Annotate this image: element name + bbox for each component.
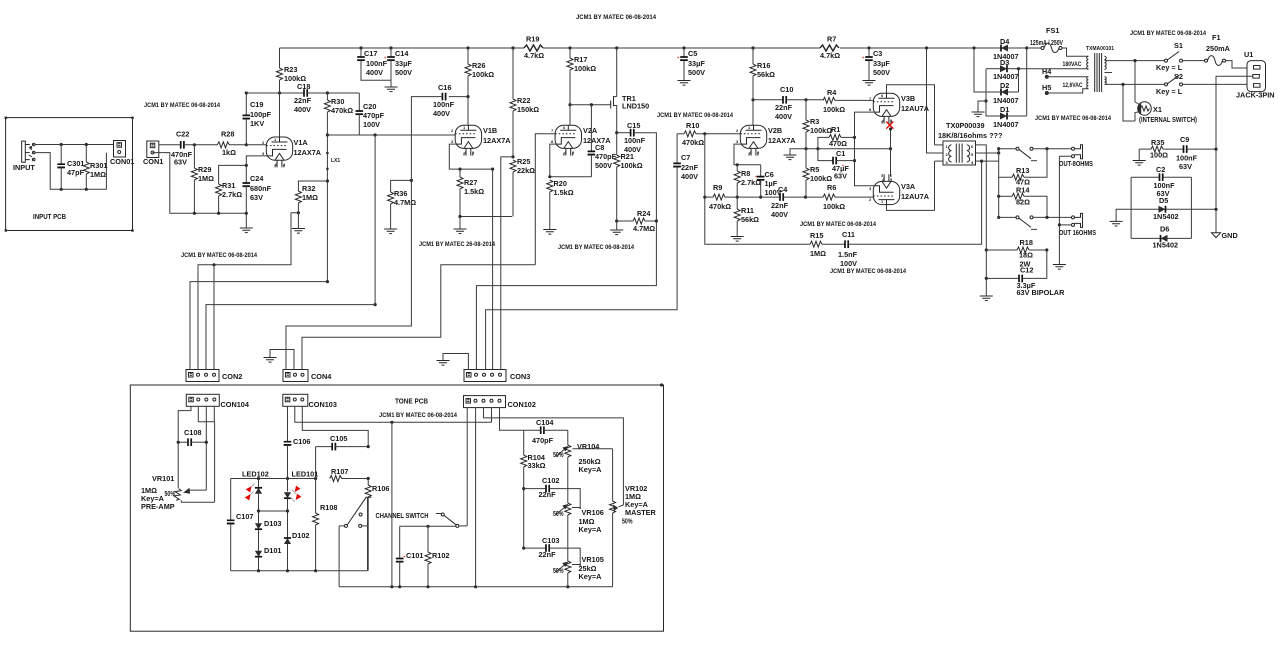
svg-text:3: 3	[869, 186, 872, 191]
capacitor C101	[396, 526, 424, 587]
svg-text:PRE-AMP: PRE-AMP	[141, 502, 175, 511]
resistor R26	[465, 48, 494, 125]
diode D1	[984, 69, 1026, 129]
wire CON103 pin1	[287, 406, 289, 441]
svg-text:V3A: V3A	[901, 182, 916, 191]
wire tone ground rail	[339, 422, 612, 588]
resistor R32	[291, 181, 327, 229]
svg-text:1KV: 1KV	[250, 119, 264, 128]
svg-text:C12: C12	[1020, 266, 1033, 275]
svg-text:U1: U1	[1244, 50, 1253, 59]
resistor R5	[803, 147, 832, 197]
svg-text:R32: R32	[302, 184, 315, 193]
svg-text:1: 1	[946, 144, 949, 149]
resistor R17	[567, 48, 596, 125]
wire input signal	[35, 143, 114, 146]
svg-text:V2A: V2A	[583, 126, 598, 135]
svg-text:3: 3	[262, 151, 265, 156]
ground under R32	[292, 229, 305, 234]
svg-text:R15: R15	[810, 231, 823, 240]
resistor R301	[83, 145, 107, 190]
resistor R20	[547, 179, 574, 230]
svg-text:INPUT: INPUT	[13, 163, 35, 172]
wire CON3 pin0 ground	[437, 354, 469, 370]
svg-text:C19: C19	[250, 100, 263, 109]
wire input return	[35, 153, 106, 191]
svg-text:500V: 500V	[873, 68, 890, 77]
svg-text:56kΩ: 56kΩ	[741, 215, 759, 224]
svg-text:1MΩ: 1MΩ	[810, 249, 826, 258]
svg-text:CON104: CON104	[221, 400, 250, 409]
svg-text:1N5402: 1N5402	[1153, 212, 1179, 221]
svg-text:R18: R18	[1020, 238, 1033, 247]
capacitor C9	[1176, 135, 1218, 171]
resistor R28	[217, 130, 266, 158]
svg-text:22nF: 22nF	[771, 201, 789, 210]
resistor R30	[324, 91, 353, 135]
svg-text:R28: R28	[221, 130, 234, 139]
svg-text:82Ω: 82Ω	[1016, 198, 1030, 207]
potentiometer VR104	[553, 430, 613, 503]
wire primary top	[1105, 60, 1165, 62]
svg-text:4: 4	[564, 150, 567, 155]
svg-text:3: 3	[736, 139, 739, 144]
svg-text:50%: 50%	[553, 566, 564, 575]
capacitor C11	[838, 161, 982, 268]
svg-text:JCM1 BY MATEC 06-08-2014: JCM1 BY MATEC 06-08-2014	[657, 112, 733, 119]
svg-text:(INTERNAL SWITCH): (INTERNAL SWITCH)	[1139, 115, 1197, 124]
svg-text:R24: R24	[637, 209, 651, 218]
svg-text:TX0P00039: TX0P00039	[946, 121, 985, 130]
svg-text:4: 4	[971, 160, 974, 165]
resistor R35	[1139, 138, 1183, 160]
resistor R22	[510, 48, 539, 157]
svg-text:63V: 63V	[174, 158, 187, 167]
svg-text:GND: GND	[1222, 231, 1238, 240]
svg-text:CON2: CON2	[222, 372, 242, 381]
ground diode bridge	[972, 101, 987, 117]
svg-text:R8: R8	[741, 169, 750, 178]
svg-text:63V: 63V	[250, 193, 263, 202]
svg-text:C18: C18	[297, 82, 310, 91]
svg-text:CHANNEL SWITCH: CHANNEL SWITCH	[376, 511, 429, 520]
svg-text:OUT-8OHMS: OUT-8OHMS	[1059, 159, 1093, 168]
ground R35	[1133, 149, 1146, 165]
resistor R23	[277, 48, 307, 93]
wire tone bottom rail	[231, 569, 368, 572]
resistor R31	[216, 164, 248, 214]
svg-text:OUT 16OHMS: OUT 16OHMS	[1059, 228, 1096, 237]
svg-text:9: 9	[472, 150, 475, 155]
svg-text:R102: R102	[432, 551, 449, 560]
connector CON102	[464, 396, 536, 409]
capacitor C301	[57, 145, 84, 190]
svg-text:2.7kΩ: 2.7kΩ	[222, 190, 242, 199]
svg-text:2: 2	[946, 152, 949, 157]
svg-text:1: 1	[274, 137, 277, 142]
wire CON4 pin1	[286, 180, 411, 369]
svg-text:500V: 500V	[595, 161, 612, 170]
svg-text:D103: D103	[264, 519, 281, 528]
wire CON1 to C22	[159, 144, 181, 146]
svg-text:R3: R3	[810, 117, 819, 126]
switch channel right	[436, 513, 467, 527]
svg-text:100pF: 100pF	[250, 110, 272, 119]
svg-text:22nF: 22nF	[539, 490, 557, 499]
transistor TR1	[568, 48, 649, 133]
resistor R27	[457, 169, 484, 216]
svg-text:TONE PCB: TONE PCB	[395, 397, 428, 406]
svg-text:R21: R21	[621, 152, 634, 161]
tube V3B	[869, 93, 900, 124]
svg-text:LX1: LX1	[331, 158, 340, 164]
svg-text:C105: C105	[330, 434, 347, 443]
svg-text:R108: R108	[320, 503, 337, 512]
svg-text:R25: R25	[517, 157, 530, 166]
capacitor C3	[862, 48, 890, 81]
capacitor C4	[771, 185, 823, 219]
svg-text:C1: C1	[836, 149, 845, 158]
svg-text:R30: R30	[331, 97, 344, 106]
wire heater elevation	[806, 127, 892, 175]
svg-text:680nF: 680nF	[250, 184, 272, 193]
wire OT pin3	[935, 160, 944, 162]
svg-text:5: 5	[971, 152, 974, 157]
svg-text:2: 2	[869, 197, 872, 202]
capacitor C7	[486, 134, 699, 370]
svg-text:C5: C5	[688, 49, 697, 58]
svg-text:4.7kΩ: 4.7kΩ	[820, 51, 840, 60]
svg-text:JCM1 BY MATEC 26-08-2014: JCM1 BY MATEC 26-08-2014	[419, 241, 495, 248]
wire OT pin6 down	[976, 145, 987, 250]
svg-text:100V: 100V	[363, 120, 380, 129]
svg-text:R31: R31	[222, 181, 235, 190]
svg-text:1µF: 1µF	[765, 179, 778, 188]
svg-text:50%: 50%	[165, 489, 176, 498]
transformer TXMA00101	[1086, 46, 1114, 92]
svg-text:470pF: 470pF	[532, 436, 554, 445]
svg-text:12AU7A: 12AU7A	[901, 192, 930, 201]
svg-text:R36: R36	[394, 189, 407, 198]
tube V2A	[551, 125, 582, 156]
svg-text:100V: 100V	[840, 259, 857, 268]
ground under R36	[384, 229, 397, 234]
svg-text:R9: R9	[713, 183, 722, 192]
svg-text:INPUT PCB: INPUT PCB	[33, 212, 66, 221]
svg-text:C24: C24	[250, 174, 264, 183]
capacitor C20	[356, 93, 385, 135]
connector CON4	[283, 370, 332, 382]
svg-text:33µF: 33µF	[873, 59, 890, 68]
svg-text:C101: C101	[406, 551, 423, 560]
wire CON2 pin1	[190, 282, 327, 370]
svg-text:56kΩ: 56kΩ	[757, 70, 775, 79]
label V3A	[901, 182, 930, 201]
svg-text:47pF: 47pF	[67, 168, 85, 177]
svg-text:8: 8	[869, 107, 872, 112]
svg-text:Key=A: Key=A	[579, 525, 603, 534]
svg-text:D4: D4	[1000, 37, 1010, 46]
red arrows LED101	[291, 486, 302, 502]
svg-text:33kΩ: 33kΩ	[528, 461, 546, 470]
svg-text:C102: C102	[542, 476, 559, 485]
wire primary bottom	[1105, 83, 1165, 85]
svg-text:H4: H4	[1042, 67, 1052, 76]
svg-text:100kΩ: 100kΩ	[810, 126, 832, 135]
ground under C5	[678, 81, 691, 86]
svg-text:50%: 50%	[553, 450, 564, 459]
svg-text:C301: C301	[67, 159, 84, 168]
svg-text:+: +	[677, 55, 680, 60]
ground under R11	[731, 237, 744, 242]
wire CON4 pin3	[302, 265, 535, 370]
GND symbol right	[1191, 208, 1237, 240]
resistor R6	[823, 183, 873, 211]
dot tone border	[660, 383, 663, 386]
svg-text:4: 4	[283, 162, 286, 167]
svg-text:R5: R5	[810, 165, 819, 174]
switch output 8ohm	[997, 147, 1071, 161]
svg-text:9: 9	[572, 150, 575, 155]
svg-text:R35: R35	[1151, 138, 1164, 147]
svg-text:18Ω: 18Ω	[1019, 251, 1033, 260]
node dots on rail	[359, 46, 975, 49]
label V2A	[583, 126, 611, 145]
svg-text:R7: R7	[827, 35, 836, 44]
svg-text:CON01: CON01	[110, 157, 134, 166]
wire OT pin2 from rail	[927, 48, 944, 153]
svg-text:R11: R11	[741, 206, 754, 215]
svg-text:D2: D2	[1000, 81, 1009, 90]
wire R27 bottom bus	[458, 215, 512, 229]
pin H4	[1042, 67, 1088, 79]
wire LX1 net	[326, 135, 329, 283]
svg-text:C10: C10	[780, 85, 793, 94]
svg-text:JCM1 BY MATEC 06-08-2014: JCM1 BY MATEC 06-08-2014	[1035, 115, 1111, 122]
wire CON102 pin1	[466, 408, 468, 526]
svg-text:Key=A: Key=A	[579, 465, 603, 474]
resistor R11	[734, 197, 759, 236]
svg-text:100kΩ: 100kΩ	[823, 105, 845, 114]
node R25 top to CON3	[501, 155, 515, 370]
svg-text:63V: 63V	[834, 172, 847, 181]
svg-text:3: 3	[451, 139, 454, 144]
svg-text:S2: S2	[1174, 72, 1183, 81]
capacitor C12	[985, 250, 1065, 297]
connector CON104	[186, 394, 250, 409]
svg-text:R14: R14	[1016, 186, 1030, 195]
svg-text:R23: R23	[284, 65, 297, 74]
wire V1B cathode to CON3	[492, 169, 494, 370]
wire R30/C20 bottom to V1B grid	[326, 133, 455, 136]
LED LED102	[242, 470, 269, 512]
resistor R102	[425, 526, 449, 587]
svg-text:R107: R107	[331, 467, 348, 476]
wire C101 R102 node	[400, 525, 456, 528]
capacitor C103	[522, 536, 580, 566]
ground under C12 bus	[980, 278, 993, 300]
wire B+ rail	[280, 47, 1027, 49]
svg-text:R19: R19	[526, 35, 539, 44]
wire CON102 pin5 to C104	[500, 408, 524, 431]
pin H5	[1042, 83, 1088, 95]
wire V2A grid down	[535, 134, 555, 265]
resistor R3	[803, 98, 832, 148]
svg-text:100nF: 100nF	[624, 136, 646, 145]
svg-text:CON4: CON4	[311, 372, 332, 381]
svg-text:V1B: V1B	[483, 126, 497, 135]
ground C2 box left	[1110, 209, 1132, 226]
svg-text:7: 7	[551, 128, 554, 133]
svg-text:C106: C106	[293, 437, 310, 446]
svg-text:470kΩ: 470kΩ	[682, 138, 704, 147]
svg-text:+: +	[862, 55, 865, 60]
capacitor C16	[411, 83, 469, 180]
svg-text:63V BIPOLAR: 63V BIPOLAR	[1017, 288, 1066, 297]
capacitor C106	[284, 437, 311, 480]
node V1A plate	[246, 91, 304, 137]
svg-text:C6: C6	[765, 170, 774, 179]
svg-text:V1A: V1A	[294, 138, 309, 147]
svg-text:470kΩ: 470kΩ	[709, 202, 731, 211]
tone PCB border	[130, 385, 663, 631]
svg-text:Key=A: Key=A	[579, 572, 603, 581]
svg-text:100kΩ: 100kΩ	[810, 174, 832, 183]
svg-text:3: 3	[946, 160, 949, 165]
diode D103	[255, 511, 282, 551]
svg-text:D3: D3	[1000, 58, 1009, 67]
svg-text:R4: R4	[827, 88, 837, 97]
svg-text:JCM1 BY MATEC 06-08-2014: JCM1 BY MATEC 06-08-2014	[576, 14, 656, 21]
svg-text:150kΩ: 150kΩ	[517, 105, 539, 114]
svg-text:22nF: 22nF	[681, 163, 699, 172]
switch S2	[1156, 72, 1247, 96]
wire R9 node line	[703, 134, 762, 199]
svg-text:JCM1 BY MATEC 06-08-2014: JCM1 BY MATEC 06-08-2014	[800, 221, 876, 228]
svg-text:1MΩ: 1MΩ	[198, 174, 214, 183]
capacitor C102	[522, 476, 580, 509]
svg-text:C17: C17	[364, 49, 377, 58]
svg-text:12AX7A: 12AX7A	[768, 136, 796, 145]
connector CON01	[110, 141, 134, 167]
wire CON104 pin2 pin4	[198, 406, 214, 502]
svg-text:C108: C108	[184, 428, 201, 437]
svg-text:8: 8	[551, 139, 554, 144]
svg-text:12AU7A: 12AU7A	[901, 104, 930, 113]
svg-text:C20: C20	[363, 102, 376, 111]
svg-text:12AX7A: 12AX7A	[294, 148, 322, 157]
svg-text:1.5nF: 1.5nF	[838, 250, 858, 259]
svg-text:2: 2	[736, 128, 739, 133]
connector CON2	[186, 370, 242, 382]
capacitor C15	[615, 121, 656, 221]
red X V3B heater	[886, 122, 893, 129]
svg-text:4.7MΩ: 4.7MΩ	[633, 224, 655, 233]
svg-text:22nF: 22nF	[775, 103, 793, 112]
diode D4	[993, 37, 1019, 61]
wire V3B plate to OT	[887, 85, 935, 145]
svg-text:1.5kΩ: 1.5kΩ	[554, 188, 574, 197]
svg-text:R27: R27	[464, 178, 477, 187]
jack OUT 16OHMS	[1058, 213, 1096, 237]
svg-text:R20: R20	[554, 179, 567, 188]
diode D6	[1131, 225, 1191, 250]
wire OT pin4 down	[976, 149, 999, 163]
svg-text:H5: H5	[1042, 83, 1051, 92]
svg-text:50%: 50%	[553, 509, 564, 518]
tube V3A	[869, 174, 900, 204]
tube V1B	[451, 125, 482, 156]
wire CON104 pin1	[178, 406, 191, 488]
capacitor C1	[816, 147, 856, 180]
svg-text:100kΩ: 100kΩ	[574, 64, 596, 73]
capacitor C18	[294, 82, 359, 114]
resistor R10	[677, 121, 740, 147]
resistor R15	[810, 231, 845, 258]
diode D101	[255, 546, 282, 571]
svg-text:400V: 400V	[775, 112, 792, 121]
svg-text:R10: R10	[686, 121, 699, 130]
svg-text:470Ω: 470Ω	[829, 139, 847, 148]
capacitor C5	[677, 48, 705, 81]
svg-text:4.7kΩ: 4.7kΩ	[524, 51, 544, 60]
resistor R9	[709, 183, 780, 211]
wire input ground bus	[152, 153, 248, 228]
svg-text:R13: R13	[1016, 166, 1029, 175]
ground jack sleeve	[1053, 265, 1066, 270]
resistor R107	[330, 467, 370, 482]
resistor R14	[997, 186, 1047, 218]
svg-text:JCM1 BY MATEC 06-08-2014: JCM1 BY MATEC 06-08-2014	[181, 252, 257, 259]
capacitor C105	[316, 434, 370, 450]
svg-text:C104: C104	[536, 418, 554, 427]
ground under C14	[385, 87, 398, 92]
svg-text:VR101: VR101	[152, 474, 174, 483]
svg-text:R1: R1	[831, 125, 840, 134]
svg-text:JCM1 BY MATEC 06-08-2014: JCM1 BY MATEC 06-08-2014	[144, 102, 220, 109]
svg-text:470pF: 470pF	[363, 111, 385, 120]
svg-text:D1: D1	[1000, 105, 1009, 114]
capacitor C2	[1131, 165, 1191, 238]
svg-text:2: 2	[451, 128, 454, 133]
resistor R104	[521, 430, 546, 548]
resistor R36	[388, 179, 417, 229]
svg-text:1.5kΩ: 1.5kΩ	[464, 187, 484, 196]
svg-text:JCM1 BY MATEC 06-08-2014: JCM1 BY MATEC 06-08-2014	[558, 244, 634, 251]
jack INPUT	[13, 141, 35, 172]
svg-text:1N4007: 1N4007	[993, 72, 1019, 81]
svg-text:R106: R106	[372, 484, 389, 493]
svg-text:22nF: 22nF	[294, 96, 312, 105]
wire V1B grid tap to CON2	[374, 135, 377, 306]
diode D5	[1131, 196, 1191, 221]
svg-text:R22: R22	[517, 96, 530, 105]
svg-text:400V: 400V	[681, 172, 698, 181]
resistor R24	[615, 209, 658, 233]
wire CON2 pin3	[206, 305, 375, 370]
svg-text:400V: 400V	[433, 109, 450, 118]
svg-text:C107: C107	[236, 512, 253, 521]
fuse FS1	[1025, 26, 1088, 116]
svg-text:VR106: VR106	[582, 508, 604, 517]
svg-text:1MΩ: 1MΩ	[90, 170, 106, 179]
svg-text:500V: 500V	[688, 68, 705, 77]
resistor R106	[365, 479, 389, 571]
svg-text:R29: R29	[198, 165, 211, 174]
resistor R16	[750, 48, 775, 125]
wire CON4 pin2 ground	[264, 350, 295, 370]
svg-text:50%: 50%	[622, 517, 633, 526]
